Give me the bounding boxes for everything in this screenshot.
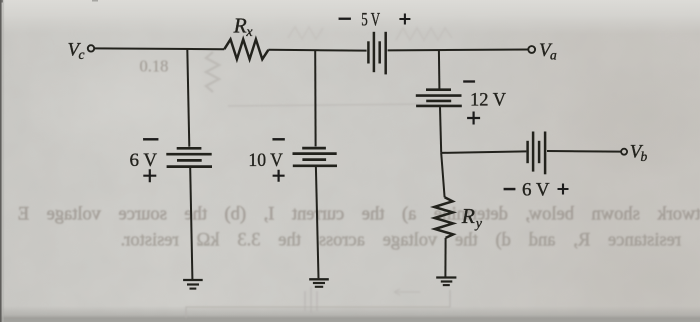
label plus of 6V left [143, 169, 156, 182]
top-left corner mark [0, 0, 3, 3]
svg-text:y: y [474, 216, 483, 231]
wire branch3 top to 12V battery [438, 50, 441, 89]
label minus of 6V right [504, 188, 516, 190]
svg-text:x: x [245, 25, 253, 40]
bleed horizontal line mid [228, 104, 428, 106]
wire 12V battery down to junction [440, 107, 441, 153]
wire branch1 down from top to 6V battery [187, 49, 189, 147]
label plus of 10V [273, 170, 285, 182]
battery B2 6V (short,long,short,long from top) [177, 147, 202, 150]
wire branch2 battery to ground [316, 167, 319, 278]
label plus of 6V right [558, 184, 569, 195]
svg-text:12 V: 12 V [470, 89, 506, 110]
resistor R2 Ry [434, 197, 453, 238]
bleed wavy resistor left piece [288, 27, 323, 39]
label minus of 10V [273, 138, 285, 140]
left edge line [0, 0, 2, 322]
wire top: 5V battery to Va [388, 49, 529, 52]
svg-text:6 V: 6 V [522, 179, 550, 200]
svg-text:twork shown below, determine a: twork shown below, determine a) the curr… [18, 204, 700, 224]
battery B3 10V [302, 147, 326, 150]
bleed vertical resistor zigzag left [206, 52, 219, 92]
battery B5 6V right (short,tall,short,tall) [526, 141, 529, 163]
battery B1 5V (short,tall,short,tall) [367, 41, 370, 63]
svg-text:R: R [461, 204, 475, 228]
wire top: Rx to 5V battery [268, 49, 366, 52]
svg-text:b: b [641, 149, 648, 164]
wire branch1 battery to ground [190, 168, 192, 279]
resistor R1 Rx [224, 39, 268, 59]
wire junction down to Ry [441, 153, 444, 197]
svg-text:R: R [233, 13, 247, 37]
wire top: Vc to Rx [95, 47, 225, 50]
label plus of 12V [467, 112, 480, 125]
svg-text:10 V: 10 V [248, 150, 283, 171]
ground G3 [436, 276, 456, 278]
svg-text:5 V: 5 V [361, 10, 380, 31]
bleed arrow bottom [394, 289, 420, 295]
svg-text:6 V: 6 V [130, 150, 158, 171]
svg-text:0.18: 0.18 [140, 57, 169, 76]
bleed wavy resistor top right [396, 28, 452, 40]
ground G2 [309, 278, 329, 280]
node Va terminal [528, 46, 535, 53]
label minus of 6V left [143, 138, 158, 140]
wire 6V battery to Vb [547, 150, 621, 153]
bleed box bottom [186, 290, 450, 318]
label minus of 12V [463, 81, 475, 83]
label plus of 5V [399, 14, 410, 25]
svg-text:resistance R, and d) the volta: resistance R, and d) the voltage across … [121, 230, 681, 250]
svg-text:c: c [79, 47, 85, 62]
node Vc terminal [88, 45, 94, 51]
label minus of 5V [339, 18, 351, 20]
wire Ry to ground [444, 238, 446, 277]
svg-text:a: a [550, 48, 557, 63]
ground G1 [183, 279, 203, 281]
node Vb terminal [621, 149, 627, 155]
wire junction to 6V(right) battery [441, 151, 526, 153]
bleed battery marks bottom [305, 287, 317, 313]
battery B4 12V (short,long,short,long) [426, 88, 451, 91]
wire branch2 down from top to 10V battery [314, 50, 316, 146]
